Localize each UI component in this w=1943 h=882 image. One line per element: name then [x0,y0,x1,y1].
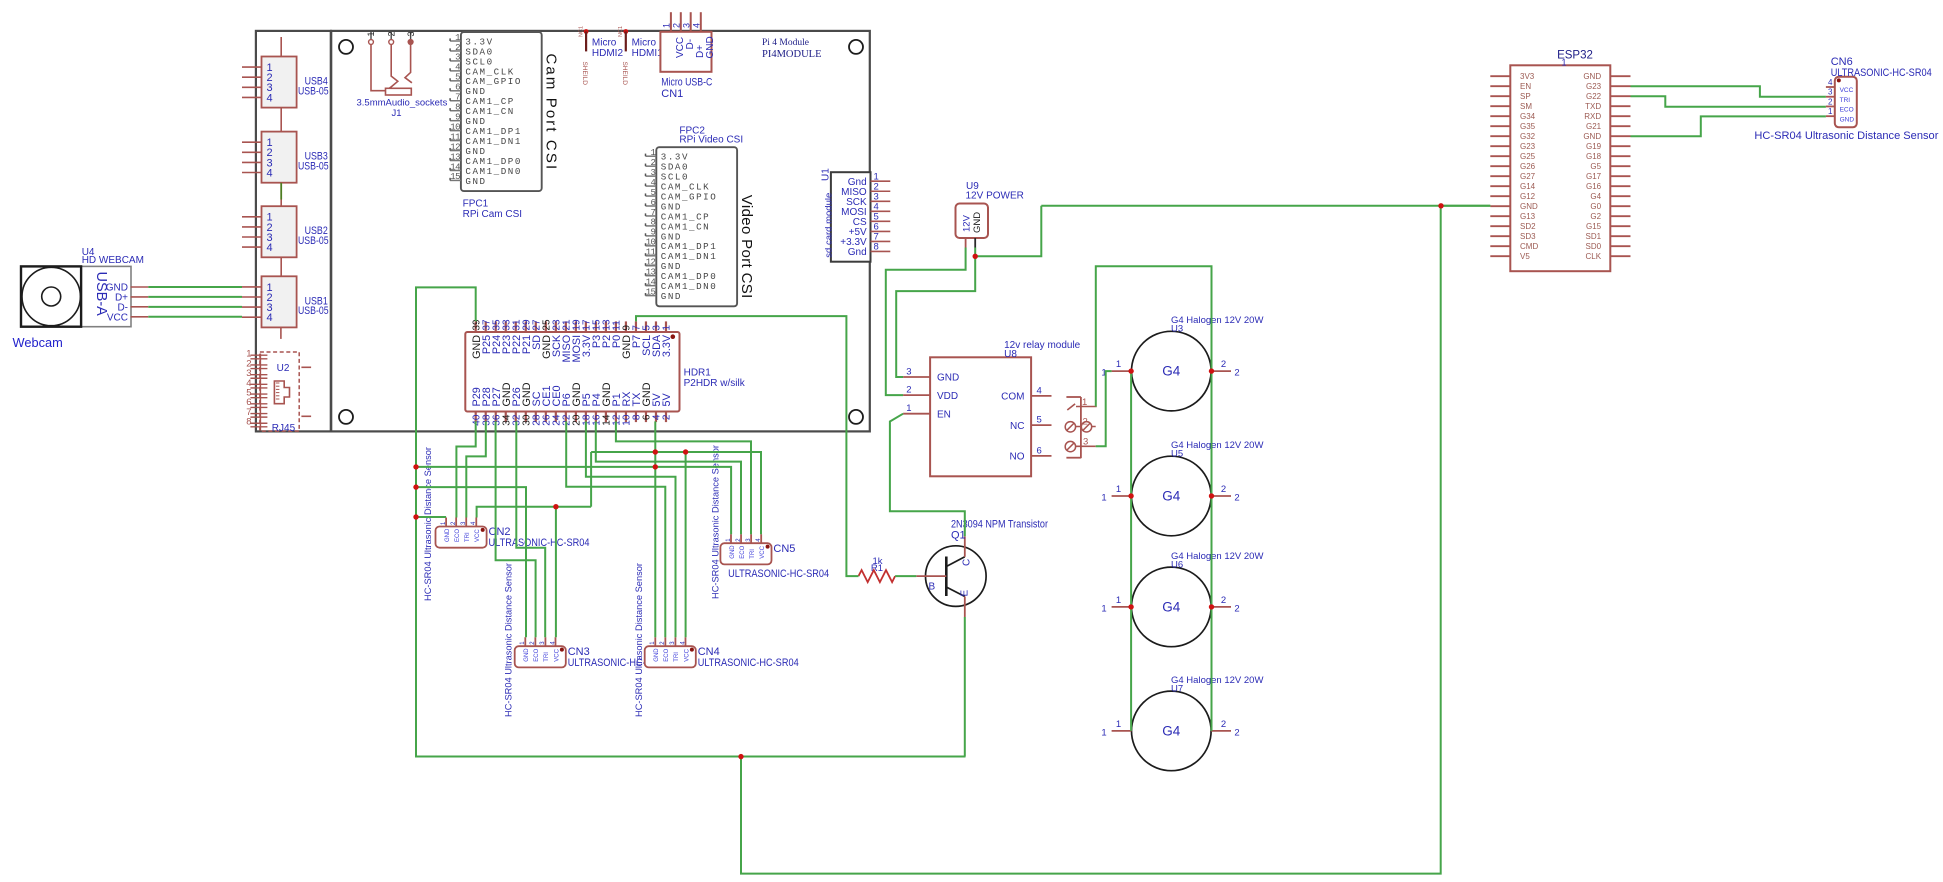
wire U9 12V to U8 VDD [886,248,966,396]
svg-text:7: 7 [455,93,460,103]
svg-text:ECO: ECO [664,648,670,661]
svg-text:C: C [962,559,973,566]
svg-text:2: 2 [650,158,655,168]
svg-text:3: 3 [682,23,692,28]
svg-text:G15: G15 [1586,222,1602,231]
wire contact pin1 to lamp loop [1096,266,1212,731]
module ESP32 [1490,50,1630,272]
svg-text:TRI: TRI [750,549,756,559]
svg-text:GND: GND [465,176,486,187]
svg-text:1: 1 [455,33,460,43]
svg-text:G27: G27 [1520,172,1536,181]
svg-text:GND: GND [972,212,983,233]
svg-text:G4 Halogen 12V 20W: G4 Halogen 12V 20W [1171,675,1263,686]
resistor R1 1k [859,556,896,582]
svg-text:15: 15 [646,287,656,297]
svg-text:1: 1 [662,23,672,28]
sensor CN2 ULTRASONIC-HC-SR04 [436,518,590,550]
svg-text:ULTRASONIC-HC-SR04: ULTRASONIC-HC-SR04 [1831,67,1932,79]
svg-text:G4: G4 [1162,489,1181,504]
svg-text:G4 Halogen 12V 20W: G4 Halogen 12V 20W [1171,440,1263,451]
svg-text:ULTRASONIC-HC-SR04: ULTRASONIC-HC-SR04 [728,568,829,580]
relay contact terminal block [1065,397,1096,458]
wire USB4-USB3 link [280,108,282,132]
svg-text:4: 4 [267,242,273,254]
svg-text:U7: U7 [1171,683,1183,694]
wire U8 EN to Q1 collector [890,414,965,537]
svg-text:Micro USB-C: Micro USB-C [661,76,712,88]
svg-text:EN: EN [937,409,951,420]
wire R1 to Q1 base [895,575,916,577]
svg-text:ECO: ECO [740,545,746,558]
sensor CN4 ULTRASONIC-HC-SR04 [645,637,799,669]
svg-text:G12: G12 [1520,192,1536,201]
svg-text:HC-SR04 Ultrasonic Distance Se: HC-SR04 Ultrasonic Distance Sensor [634,563,645,717]
wire U9 GND junction [974,248,976,257]
svg-text:GND: GND [705,36,716,58]
svg-text:Pi 4 Module: Pi 4 Module [762,38,809,48]
svg-text:4: 4 [267,167,273,179]
svg-text:G16: G16 [1586,182,1602,191]
svg-text:GND: GND [1583,132,1601,141]
svg-text:2: 2 [906,385,911,396]
svg-text:3: 3 [406,31,416,36]
junction at 1441.0,205.8 [1438,203,1443,208]
wire ESP32 GND to CN6 GND [1631,116,1826,136]
svg-text:1: 1 [1101,493,1106,504]
svg-text:CN1: CN1 [661,88,683,100]
svg-text:NC: NC [1010,421,1024,432]
svg-text:G17: G17 [1586,172,1602,181]
svg-text:1: 1 [1116,595,1121,606]
USB connector USB2 [242,206,329,257]
svg-text:SHEILD: SHEILD [621,62,628,86]
wire webcam GND to USB1 pin1 [148,286,242,288]
svg-text:13: 13 [450,152,460,162]
svg-text:4: 4 [267,92,273,104]
lamp U7 G4 Halogen 12V 20W [1101,675,1263,771]
svg-text:GND: GND [661,291,682,302]
sensor CN5 ULTRASONIC-HC-SR04 [720,534,829,580]
svg-text:GND: GND [730,545,736,559]
junction at 655.3,466.9 [653,464,658,469]
svg-text:2: 2 [1221,484,1226,495]
svg-text:U5: U5 [1171,449,1183,460]
svg-text:G19: G19 [1586,142,1602,151]
svg-text:V5: V5 [1520,252,1530,261]
port Micro HDMI2 [578,26,623,85]
svg-text:5: 5 [455,73,460,83]
svg-text:3: 3 [906,367,911,378]
svg-text:G21: G21 [1586,122,1602,131]
svg-text:4: 4 [692,23,702,28]
relay module U8 [903,340,1081,477]
svg-text:2: 2 [1234,368,1239,379]
svg-text:2: 2 [1234,727,1239,738]
junction at 416.0,466.9 [413,464,418,469]
svg-text:3: 3 [1083,437,1088,448]
junction at 685.6,452.0 [683,449,688,454]
svg-text:GND: GND [654,648,660,662]
svg-text:TRI: TRI [1840,97,1851,104]
svg-text:4: 4 [650,178,655,188]
svg-text:SHEILD: SHEILD [581,62,588,86]
svg-text:P2HDR w/silk: P2HDR w/silk [684,378,746,389]
svg-text:5: 5 [650,188,655,198]
svg-text:E: E [960,590,971,597]
svg-text:SP: SP [1520,92,1531,101]
junction at 1211.5,371.1 [1209,368,1214,373]
svg-text:G2: G2 [1590,212,1601,221]
svg-text:6: 6 [1037,445,1042,456]
svg-text:ULTRASONIC-HC-SR04: ULTRASONIC-HC-SR04 [698,657,799,669]
sensor CN6 ULTRASONIC-HC-SR04 [1754,56,1938,142]
svg-text:1: 1 [1116,719,1121,730]
svg-text:HC-SR04 Ultrasonic Distance Se: HC-SR04 Ultrasonic Distance Sensor [1754,130,1938,142]
connector CN1 Micro USB-C [660,12,716,100]
svg-text:1: 1 [906,403,911,414]
svg-text:12V POWER: 12V POWER [966,191,1024,202]
wire P4 to CN5 ECO [596,421,741,534]
lamp U3 G4 Halogen 12V 20W [1101,315,1263,411]
svg-text:sd card module: sd card module [824,193,835,258]
port Micro HDMI1 [618,26,663,85]
svg-text:RXD: RXD [1584,112,1601,121]
svg-text:RPi Cam CSI: RPi Cam CSI [463,209,522,220]
svg-text:G4: G4 [1162,599,1181,614]
svg-text:2: 2 [662,414,673,420]
svg-text:G26: G26 [1520,162,1536,171]
svg-text:3.5mmAudio_sockets: 3.5mmAudio_sockets [357,97,448,108]
svg-text:G23: G23 [1520,142,1536,151]
wire HDR1 pin39 GND trunk [416,287,966,756]
header HDR1 P2HDR w/silk [465,319,679,426]
junction at 975.2,256.3 [973,254,978,259]
wire CN4 VCC drop [685,452,687,637]
USB connector USB4 [242,57,329,108]
sensor CN3 ULTRASONIC-HC-SR04 [515,637,669,669]
wire GND branch to CN3 GND [416,487,526,637]
wire 5V rail link [590,452,592,507]
svg-text:SD3: SD3 [1520,232,1536,241]
svg-text:G34: G34 [1520,112,1536,121]
svg-text:G4: G4 [1162,364,1181,379]
junction at 555.9,506.7 [553,504,558,509]
svg-text:4: 4 [267,312,273,324]
wire USB2-USB1 link [280,257,282,276]
svg-text:CN5: CN5 [773,543,795,555]
svg-text:GND: GND [937,373,959,384]
svg-text:Video Port CSI: Video Port CSI [738,195,755,299]
wire P5 to CN4 TRI [586,421,676,637]
svg-text:Q1: Q1 [951,530,966,542]
svg-text:TXD: TXD [1585,102,1601,111]
svg-text:6: 6 [455,83,460,93]
svg-text:USB-05: USB-05 [298,160,329,172]
svg-text:12: 12 [450,142,460,152]
svg-text:ECO: ECO [534,648,540,661]
svg-text:10: 10 [646,238,656,248]
svg-text:15: 15 [450,172,460,182]
svg-text:Webcam: Webcam [13,335,63,350]
wire Q1 emitter to GND rail [964,617,966,757]
wire U9 GND to GND rail [975,206,1041,256]
svg-text:PI4MODULE: PI4MODULE [762,49,822,60]
svg-text:VDD: VDD [937,391,958,402]
wire lamp pin1 bus [1130,371,1132,731]
svg-text:G4: G4 [1162,723,1181,738]
svg-text:6: 6 [650,198,655,208]
svg-text:VCC: VCC [554,648,560,661]
lamp U6 G4 Halogen 12V 20W [1101,551,1263,647]
svg-text:9: 9 [650,228,655,238]
svg-text:EN: EN [1520,82,1531,91]
svg-text:7: 7 [650,208,655,218]
junction at 1131.1,606.9 [1128,604,1133,609]
junction at 1131.1,371.1 [1128,368,1133,373]
svg-text:G5: G5 [1590,162,1601,171]
wire webcam D- to USB1 pin3 [148,306,242,308]
connector FPC2 RPi Video CSI [646,147,738,306]
wire ESP32 GND stub [1441,205,1490,207]
connector FPC1 RPi Cam CSI [450,32,542,191]
svg-text:G4 Halogen 12V 20W: G4 Halogen 12V 20W [1171,551,1263,562]
wire contact pin3 to U3 pin1 [1096,371,1112,446]
mounting hole top-right [849,40,863,54]
webcam U4 HD WEBCAM symbol [21,247,148,327]
svg-text:2: 2 [455,43,460,53]
svg-text:2: 2 [386,31,396,36]
svg-text:RPi Video CSI: RPi Video CSI [679,134,743,145]
svg-text:G32: G32 [1520,132,1536,141]
USB connector USB1 [242,276,329,327]
svg-text:14: 14 [450,162,460,172]
svg-text:11: 11 [450,132,460,142]
wire ESP32 G22 to CN6 ECO [1631,96,1826,107]
svg-text:HC-SR04 Ultrasonic Distance Se: HC-SR04 Ultrasonic Distance Sensor [503,563,514,717]
svg-text:G4: G4 [1590,192,1601,201]
svg-text:GND: GND [1840,116,1855,123]
svg-text:2: 2 [1221,359,1226,370]
svg-text:SD2: SD2 [1520,222,1536,231]
svg-text:5V: 5V [661,392,673,406]
svg-text:12: 12 [646,258,656,268]
svg-text:U8: U8 [1004,349,1017,360]
svg-text:HD WEBCAM: HD WEBCAM [82,255,144,266]
svg-text:U1: U1 [820,168,831,181]
svg-text:14: 14 [646,277,656,287]
svg-text:2: 2 [1221,719,1226,730]
svg-text:USB-A: USB-A [93,272,109,317]
svg-text:8: 8 [650,218,655,228]
wire USB1-U2 link [280,327,282,339]
wire P29 to CN2 ECO [456,421,475,517]
svg-text:TRI: TRI [674,652,680,662]
wire 5V pin4 to CN4 GND [654,421,656,637]
svg-text:HC-SR04 Ultrasonic Distance Se: HC-SR04 Ultrasonic Distance Sensor [423,447,434,601]
svg-text:U6: U6 [1171,559,1183,570]
svg-text:USB-05: USB-05 [298,305,329,317]
USB connector USB3 [242,132,329,183]
svg-text:SD0: SD0 [1586,242,1602,251]
svg-text:1: 1 [1082,397,1087,408]
mounting hole top-left [339,40,353,54]
transistor Q1 2N3094 NPN [916,519,1048,618]
junction at 655.3,452.0 [653,449,658,454]
svg-text:NO: NO [1010,452,1025,463]
mounting hole bottom-right [849,410,863,424]
svg-text:USB-05: USB-05 [298,85,329,97]
wire 5V rail to CN5 VCC [591,452,761,534]
audio jack J1 3.5mm sockets [357,31,448,119]
svg-text:1: 1 [1101,727,1106,738]
svg-text:NC1: NC1 [578,26,584,37]
junction at 416.0,517.0 [413,514,418,519]
svg-text:3: 3 [1828,88,1833,97]
svg-text:1: 1 [1828,107,1833,116]
svg-text:4: 4 [1037,385,1042,396]
svg-text:2: 2 [1234,493,1239,504]
svg-text:SD1: SD1 [1586,232,1602,241]
wire USB3-USB2 link [280,183,282,200]
svg-text:G4 Halogen 12V 20W: G4 Halogen 12V 20W [1171,315,1263,326]
junction at 416.0,487.1 [413,484,418,489]
wire P1 to CN5 TRI [616,421,751,534]
wire USB4 top stub [280,37,282,57]
svg-text:10: 10 [450,122,460,132]
svg-text:USB-05: USB-05 [298,235,329,247]
svg-text:CMD: CMD [1520,242,1538,251]
svg-text:U2: U2 [277,363,290,374]
svg-text:1: 1 [366,31,376,36]
svg-text:13: 13 [646,268,656,278]
svg-text:3: 3 [650,168,655,178]
svg-text:Micro: Micro [632,37,657,48]
svg-text:1: 1 [1101,603,1106,614]
wire P27 to CN3 ECO [496,421,536,637]
svg-text:COM: COM [1001,392,1024,403]
svg-text:3V3: 3V3 [1520,72,1535,81]
svg-text:VCC: VCC [107,312,128,323]
svg-text:GND: GND [1520,202,1538,211]
svg-text:CLK: CLK [1586,252,1602,261]
wire GND down to bottom rail [741,206,1441,874]
ethernet jack U2 RJ45 [246,349,311,434]
svg-text:HC-SR04 Ultrasonic Distance Se: HC-SR04 Ultrasonic Distance Sensor [710,445,721,599]
junction at 1131.1,496.0 [1128,493,1133,498]
wire P26 to CN3 TRI [516,421,545,637]
svg-text:G0: G0 [1590,202,1601,211]
wire CN3 VCC drop [555,507,557,638]
wire P28 to CN2 TRI [466,421,486,517]
svg-text:NC1: NC1 [618,26,624,37]
svg-text:4: 4 [1828,78,1833,87]
svg-text:1: 1 [1562,58,1567,68]
svg-text:Micro: Micro [592,37,617,48]
svg-text:FPC1: FPC1 [463,198,489,209]
svg-text:8: 8 [455,103,460,113]
svg-text:HDR1: HDR1 [684,367,712,378]
svg-text:VCC: VCC [475,529,481,542]
svg-text:GND: GND [445,528,451,542]
junction at 1211.5,606.9 [1209,604,1214,609]
HDR1 pin1 indicator dot [671,334,676,339]
svg-text:TRI: TRI [544,652,550,662]
svg-text:VCC: VCC [760,545,766,558]
svg-text:2: 2 [672,23,682,28]
svg-text:2: 2 [1083,417,1088,428]
power U9 12V POWER [956,181,1024,248]
svg-text:ECO: ECO [455,529,461,542]
wire webcam D+ to USB1 pin2 [148,296,242,298]
wire GND rail U9 to ESP32 [1041,205,1490,207]
svg-text:U3: U3 [1171,324,1183,335]
svg-text:2: 2 [1221,595,1226,606]
wire GND branch to CN5 GND [416,467,731,534]
svg-text:HDMI2: HDMI2 [592,48,624,59]
svg-text:B: B [929,582,936,593]
wire P7 to R1 and Q1 base [636,316,859,576]
svg-text:VCC: VCC [1840,87,1854,94]
wire 5V rail to CN2/CN3 VCC [477,507,591,518]
svg-text:J1: J1 [392,108,402,119]
svg-text:1: 1 [1116,359,1121,370]
svg-text:8: 8 [246,417,251,428]
module U1 sd card module [820,168,890,262]
svg-text:HDMI1: HDMI1 [632,48,664,59]
svg-text:G25: G25 [1520,152,1536,161]
svg-text:G35: G35 [1520,122,1536,131]
wire webcam VCC to USB1 pin4 [148,316,242,318]
svg-text:G18: G18 [1586,152,1602,161]
svg-text:12V: 12V [962,214,973,232]
svg-text:1: 1 [662,325,673,331]
wire GND branch to CN2 GND [416,516,446,518]
svg-text:Gnd: Gnd [848,247,867,258]
svg-text:G13: G13 [1520,212,1536,221]
svg-text:2: 2 [1234,603,1239,614]
wire P6 to CN4 ECO [566,421,665,637]
mounting hole bottom-left [339,410,353,424]
svg-text:ECO: ECO [1840,107,1854,114]
svg-text:TRI: TRI [465,532,471,542]
svg-text:GND: GND [1583,72,1601,81]
svg-text:4: 4 [455,63,460,73]
svg-text:5: 5 [1037,415,1042,426]
svg-text:9: 9 [455,112,460,122]
svg-text:G23: G23 [1586,82,1602,91]
Pi 4 module board outline [331,31,870,432]
svg-text:Cam Port CSI: Cam Port CSI [543,54,560,172]
wire ESP32 G23 to CN6 TRI [1631,86,1826,97]
svg-text:SM: SM [1520,102,1532,111]
svg-text:8: 8 [874,242,879,253]
svg-text:VCC: VCC [684,648,690,661]
svg-text:R1: R1 [871,563,883,574]
svg-text:G22: G22 [1586,92,1602,101]
USB hub board outline [256,31,331,432]
svg-text:G14: G14 [1520,182,1536,191]
junction at 741.0,756.6 [738,754,743,759]
svg-text:11: 11 [646,248,656,258]
svg-text:2: 2 [1828,97,1833,106]
svg-text:GND: GND [524,648,530,662]
svg-text:1: 1 [1116,484,1121,495]
wire U9 GND to U8 GND [896,256,975,377]
svg-text:3: 3 [455,53,460,63]
lamp U5 G4 Halogen 12V 20W [1101,440,1263,536]
svg-text:RJ45: RJ45 [272,423,296,434]
